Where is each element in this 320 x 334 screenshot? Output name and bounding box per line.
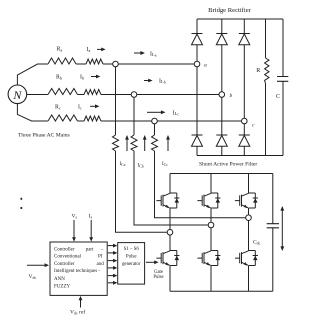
- wire: [243, 146, 245, 155]
- arrow gate pulse: [146, 260, 159, 264]
- arrow Vs: [72, 220, 76, 242]
- arrow controller out 4: [108, 266, 118, 270]
- wire tap B to node b: [137, 94, 219, 96]
- node c: [242, 118, 248, 124]
- svg-text:R: R: [256, 68, 260, 74]
- svg-text:Vs: Vs: [72, 214, 78, 220]
- inductor ICc coil: [152, 135, 158, 151]
- resistor Rc: [48, 115, 78, 121]
- wire: [265, 84, 267, 156]
- inverter bottom bus: [170, 290, 273, 292]
- arrow Vdc ref: [79, 296, 83, 308]
- wire leg2 collector: [210, 174, 212, 194]
- svg-text:part: part: [86, 247, 94, 252]
- svg-text:generator: generator: [122, 262, 141, 267]
- wire: [243, 45, 245, 118]
- svg-text:Ic: Ic: [78, 105, 82, 111]
- diode D6: [239, 135, 250, 146]
- wire leg3 mid lower: [248, 221, 250, 251]
- wire: [76, 63, 86, 65]
- svg-text:ANN: ANN: [54, 277, 65, 282]
- svg-text:Pulse: Pulse: [126, 255, 137, 260]
- svg-text:C: C: [276, 94, 280, 100]
- svg-text:a: a: [204, 63, 207, 69]
- svg-text:PI: PI: [98, 255, 103, 260]
- wire: [134, 151, 208, 225]
- wire: [155, 151, 246, 218]
- arrow ILc: [147, 110, 166, 114]
- wire: [101, 94, 131, 96]
- svg-text:ILc: ILc: [173, 110, 180, 116]
- AC source N: [8, 85, 27, 104]
- arrow Ib: [91, 75, 100, 79]
- wire: [78, 94, 85, 96]
- node leg2 mid: [208, 222, 214, 228]
- svg-text:ICb: ICb: [138, 164, 144, 169]
- IGBT S1: [156, 193, 179, 208]
- load C branch wire: [282, 19, 284, 77]
- arrow Ic: [90, 104, 99, 108]
- node a: [194, 61, 200, 67]
- IGBT S4: [156, 251, 179, 266]
- wire: [103, 63, 113, 65]
- arrow controller out 5: [108, 274, 118, 278]
- svg-text:Ia: Ia: [87, 47, 91, 53]
- inductor Lb: [84, 90, 101, 95]
- svg-text:Rc: Rc: [55, 105, 61, 111]
- wire leg2 emitter: [210, 266, 212, 292]
- svg-text:ICc: ICc: [162, 162, 168, 167]
- svg-text:ILa: ILa: [150, 52, 157, 58]
- diode D1: [192, 34, 203, 45]
- wire: [243, 124, 245, 135]
- svg-text:N: N: [12, 88, 22, 102]
- svg-text:Cdc: Cdc: [253, 240, 261, 246]
- arrow up A: [125, 135, 129, 151]
- diode D2: [216, 34, 227, 45]
- bridge column 3 upper wire: [243, 19, 245, 34]
- wire: [196, 45, 198, 61]
- arrow Is: [89, 220, 93, 242]
- node tap B: [131, 92, 137, 98]
- wire Cdc branch top: [272, 174, 274, 224]
- wire source to phase C: [17, 104, 48, 121]
- wire: [78, 120, 85, 122]
- bridge column 2 upper wire: [221, 19, 223, 34]
- svg-text:Vdc: Vdc: [29, 274, 37, 280]
- node tap A: [113, 61, 119, 67]
- svg-text:Intelligent techniques -: Intelligent techniques -: [54, 269, 100, 274]
- node tap C: [152, 118, 158, 124]
- svg-text:–: –: [100, 247, 104, 252]
- svg-text:c: c: [252, 123, 255, 129]
- svg-text:ILb: ILb: [159, 79, 166, 85]
- inverter top bus: [170, 173, 273, 175]
- svg-text:FUZZY: FUZZY: [54, 284, 71, 289]
- wire leg1 mid lower: [169, 235, 171, 250]
- wire leg1 emitter: [169, 266, 171, 292]
- wire leg2 mid upper: [210, 208, 212, 222]
- colon dots: [21, 198, 23, 200]
- svg-text:S1 – S6: S1 – S6: [124, 247, 140, 252]
- arrow ILa: [134, 51, 145, 55]
- wire source to phase B: [27, 94, 48, 96]
- svg-text:and: and: [97, 262, 105, 267]
- inductor La: [86, 59, 103, 64]
- wire: [101, 120, 152, 122]
- node b: [219, 92, 225, 98]
- arrow ILb: [144, 79, 153, 83]
- node leg1 mid: [167, 230, 173, 236]
- svg-text:Bridge Rectifier: Bridge Rectifier: [208, 7, 251, 14]
- arrow controller out 6: [108, 281, 118, 285]
- arrow up B: [143, 135, 147, 151]
- resistor R (vertical zigzag): [265, 58, 269, 84]
- svg-text:Vdc ref: Vdc ref: [70, 309, 85, 316]
- wire Cdc branch bottom: [272, 228, 274, 291]
- bridge top bus: [197, 18, 283, 20]
- svg-text:ICa: ICa: [120, 162, 126, 167]
- bridge bottom bus: [197, 155, 283, 157]
- wire: [196, 146, 198, 155]
- arrow controller out 3: [108, 259, 118, 263]
- inductor ICb coil: [131, 135, 137, 151]
- filter branch B wire: [133, 97, 135, 135]
- wire tap A to node a: [118, 63, 194, 65]
- arrow controller out 2: [108, 251, 118, 255]
- wire leg2 mid lower: [210, 228, 212, 251]
- wire leg3 mid upper: [248, 208, 250, 215]
- svg-text:Controller: Controller: [54, 262, 75, 267]
- svg-text:Is: Is: [89, 214, 93, 220]
- wire: [221, 146, 223, 155]
- IGBT S6: [197, 251, 220, 266]
- wire source to phase A: [17, 64, 48, 85]
- svg-text:Shunt Active Power Filter: Shunt Active Power Filter: [199, 162, 257, 168]
- filter branch C wire: [154, 124, 156, 135]
- inductor Lc: [84, 116, 101, 121]
- pulse generator box: [118, 243, 145, 285]
- arrow up C: [166, 135, 170, 151]
- arrow Vdc double: [280, 206, 284, 251]
- capacitor C: [277, 77, 288, 82]
- inductor ICa coil: [113, 135, 119, 151]
- controller box: [50, 242, 107, 295]
- diode D4: [192, 135, 203, 146]
- arrow controller out 1: [108, 244, 118, 248]
- wire leg3 collector: [248, 174, 250, 194]
- resistor Ra: [48, 58, 76, 64]
- wire: [282, 81, 284, 155]
- svg-text:Controller: Controller: [54, 247, 75, 252]
- node leg3 mid: [246, 215, 252, 221]
- IGBT S5: [235, 193, 258, 208]
- wire leg3 emitter: [248, 266, 250, 292]
- wire: [116, 151, 168, 232]
- IGBT S3: [197, 193, 220, 208]
- svg-text:Conventional: Conventional: [54, 255, 82, 260]
- wire: [221, 97, 223, 135]
- arrow Ia: [97, 48, 106, 52]
- arrow Vdc: [27, 263, 49, 267]
- resistor Rb: [48, 89, 78, 95]
- load R branch wire: [265, 19, 267, 58]
- svg-text:b: b: [230, 93, 233, 99]
- svg-text:Pulse: Pulse: [153, 275, 163, 280]
- wire leg1 collector: [169, 174, 171, 194]
- diode D5: [216, 135, 227, 146]
- wire tap C to node c: [157, 120, 241, 122]
- wire: [221, 45, 223, 92]
- svg-text:Ib: Ib: [80, 75, 84, 81]
- wire: [196, 67, 198, 135]
- wire leg1 mid upper: [169, 208, 171, 230]
- svg-text:Three Phase AC Mains: Three Phase AC Mains: [18, 133, 70, 139]
- svg-text:Rb: Rb: [56, 75, 62, 81]
- bridge column 1 upper wire: [196, 19, 198, 34]
- diode D3: [239, 34, 250, 45]
- filter branch A wire: [115, 67, 117, 135]
- capacitor Cdc: [267, 224, 279, 228]
- svg-text:Ra: Ra: [57, 47, 63, 53]
- IGBT S2: [235, 251, 258, 266]
